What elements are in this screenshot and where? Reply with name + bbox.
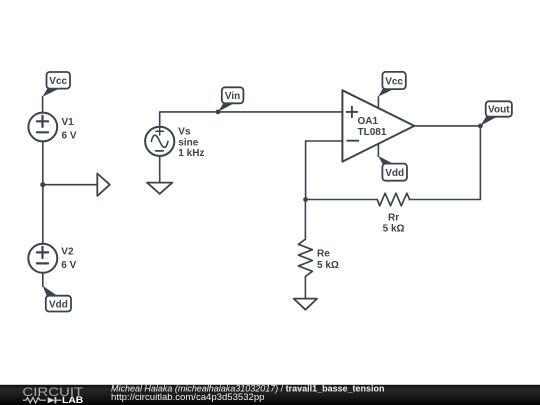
svg-text:Vdd: Vdd	[385, 168, 404, 179]
svg-text:TL081: TL081	[358, 127, 387, 138]
wire V1 to V2	[42, 141, 44, 243]
junction node dot	[40, 182, 45, 187]
ground (Re)	[294, 299, 317, 310]
source Vs sine	[145, 127, 174, 156]
svg-text:sine: sine	[178, 137, 198, 148]
svg-text:6 V: 6 V	[61, 260, 76, 271]
svg-text:Vcc: Vcc	[49, 76, 67, 87]
voltage source V1	[28, 113, 57, 142]
svg-text:V2: V2	[61, 247, 74, 258]
wire Vs to ground	[159, 156, 161, 183]
node Vdd (op-amp)	[378, 156, 407, 181]
label Re 5 kOhm	[317, 249, 339, 272]
footer credit text	[111, 383, 385, 402]
label V1 6 V	[62, 117, 77, 141]
node Vdd (left flag V2 bottom)	[43, 286, 71, 312]
ground (Vs)	[147, 183, 172, 194]
wire junction to Re	[304, 200, 306, 240]
wire Vs to plus input (node Vin)	[160, 112, 343, 127]
svg-text:LAB: LAB	[62, 395, 83, 405]
voltage source V2	[28, 244, 57, 273]
svg-text:Vs: Vs	[178, 127, 191, 138]
svg-text:1 kHz: 1 kHz	[178, 148, 204, 159]
label OA1 TL081	[358, 116, 387, 138]
wire Re to ground	[304, 276, 306, 298]
svg-text:Vdd: Vdd	[49, 299, 68, 310]
op-amp OA1	[342, 90, 414, 161]
junction node feedback	[303, 197, 308, 202]
svg-text:Rr: Rr	[388, 212, 399, 223]
wire Rr to junction	[306, 199, 378, 201]
svg-text:6 V: 6 V	[62, 130, 77, 141]
label Vs sine 1 kHz	[178, 127, 204, 160]
resistor Re	[298, 239, 312, 276]
CircuitLab logo	[22, 385, 83, 405]
svg-text:5 kΩ: 5 kΩ	[383, 223, 405, 234]
label Rr 5 kOhm	[383, 212, 405, 234]
wire feedback right side	[410, 126, 481, 200]
resistor Rr	[377, 193, 409, 206]
pin Vdd of op-amp	[377, 144, 379, 157]
node Vout	[478, 101, 512, 128]
svg-text:Re: Re	[317, 249, 330, 260]
svg-text:5 kΩ: 5 kΩ	[317, 260, 339, 271]
node Vcc (left flag V1 top)	[43, 72, 71, 97]
svg-text:OA1: OA1	[358, 116, 379, 127]
svg-text:Vcc: Vcc	[385, 76, 403, 87]
svg-text:Vin: Vin	[225, 91, 240, 102]
svg-text:V1: V1	[62, 117, 75, 128]
wire V2 to Vdd	[42, 273, 44, 286]
svg-text:http://circuitlab.com/ca4p3d53: http://circuitlab.com/ca4p3d53532pp	[111, 392, 265, 402]
wire op-amp output	[414, 125, 480, 127]
node Vin label	[216, 87, 244, 114]
pin Vcc of op-amp	[377, 97, 379, 109]
wire Vcc to V1	[42, 97, 44, 113]
svg-text:Vout: Vout	[488, 105, 510, 116]
label V2 6 V	[61, 247, 76, 272]
output flag arrow	[97, 174, 110, 196]
node Vcc (op-amp)	[378, 72, 406, 97]
wire junction to inverting input	[305, 141, 307, 200]
wire junction to flag	[43, 184, 98, 186]
wire inverting input	[306, 140, 343, 142]
